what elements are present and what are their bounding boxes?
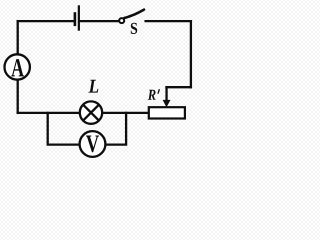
label R prime tick bbox=[157, 89, 160, 94]
voltmeter V bbox=[80, 131, 106, 157]
ammeter A bbox=[5, 54, 30, 79]
rheostat R body bbox=[149, 107, 185, 118]
wire top-left horizontal bbox=[18, 20, 74, 22]
wire right vertical bbox=[190, 21, 192, 87]
wire main middle horizontal bbox=[18, 112, 149, 114]
wire switch to top-right corner bbox=[146, 20, 191, 22]
switch S bbox=[119, 10, 144, 24]
wire battery to switch bbox=[80, 20, 119, 22]
wire voltmeter branch right bbox=[104, 113, 126, 145]
wire jog to rheostat arrow bbox=[167, 86, 191, 88]
label R bbox=[148, 90, 156, 100]
wire left vertical upper bbox=[17, 21, 19, 55]
lamp L bbox=[80, 101, 102, 123]
label S bbox=[131, 23, 137, 34]
label L bbox=[88, 80, 98, 93]
battery cell bbox=[75, 5, 79, 30]
rheostat arrow bbox=[163, 86, 171, 107]
wire voltmeter branch left bbox=[48, 113, 81, 145]
wire left vertical lower bbox=[17, 80, 19, 113]
